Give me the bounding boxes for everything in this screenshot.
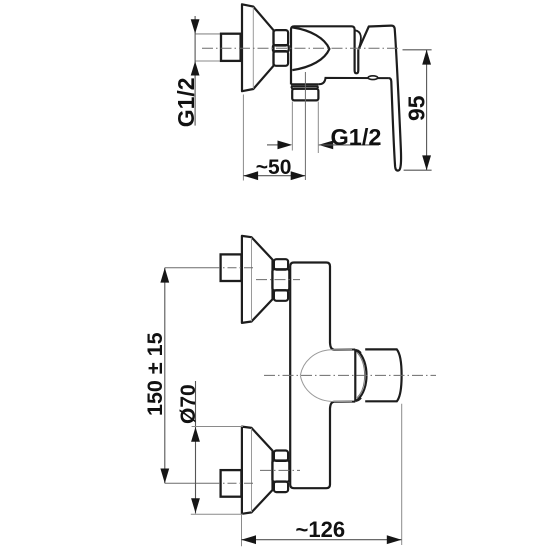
svg-text:G1/2: G1/2 <box>331 124 382 150</box>
centerline top pipe axis <box>165 267 211 269</box>
mixer body outline <box>291 26 358 84</box>
knob cylinder <box>365 349 401 401</box>
svg-text:150 ± 15: 150 ± 15 <box>143 332 167 416</box>
arrow ~50 left <box>243 171 258 180</box>
cartridge cone teardrop <box>292 27 329 70</box>
knob taper ring outer <box>358 350 367 399</box>
pipe nipple top <box>221 254 242 281</box>
body bottom step line <box>319 78 389 84</box>
dimension 150±15 line <box>164 268 166 484</box>
rosette bottom <box>242 427 273 514</box>
arrow 150 bottom <box>160 469 169 484</box>
arrow Ø70 top <box>191 427 200 442</box>
rosette top <box>242 236 273 323</box>
centerline main axis bottom view <box>264 374 436 376</box>
knob base plate edge <box>354 349 356 401</box>
extension ~126 left <box>241 515 243 547</box>
dimension Ø70 line <box>195 381 197 514</box>
screw cover oval <box>368 76 378 80</box>
extension ~126 right <box>401 404 403 545</box>
pipe nipple bottom <box>221 470 242 497</box>
centerline top nut axis <box>256 279 300 281</box>
arrow 95 bottom <box>422 155 431 170</box>
extension G1/2 outlet right <box>317 102 319 154</box>
arrow 95 top <box>422 50 431 65</box>
svg-text:~50: ~50 <box>256 156 292 179</box>
arrow Ø70 bottom <box>191 498 200 513</box>
arrow 150 top <box>160 268 169 283</box>
rosette front edge thin line <box>252 7 254 89</box>
arrow G1/2 left top <box>191 19 200 33</box>
rosette escutcheon (side view) <box>242 4 274 91</box>
lever handle <box>359 26 401 171</box>
handle neck arc <box>355 30 361 49</box>
svg-text:~126: ~126 <box>296 517 346 542</box>
centerline outlet axis <box>304 72 306 180</box>
hex nut top (front view) <box>272 259 289 301</box>
wire wall pipe thin lines <box>195 34 221 61</box>
extension 95 top <box>403 49 432 51</box>
hex nut bottom (front view) <box>272 451 289 493</box>
centerline horizontal top view <box>202 47 398 49</box>
dimension ~50 line <box>243 175 305 177</box>
svg-text:G1/2: G1/2 <box>173 77 199 127</box>
arrow G1/2 outlet left <box>278 141 293 150</box>
extension Ø70 bottom <box>191 513 243 515</box>
svg-text:95: 95 <box>403 95 429 121</box>
arrow ~126 right <box>387 535 402 544</box>
pipe nipple <box>221 34 241 61</box>
extension 95 bottom <box>404 169 432 171</box>
extension ~50 left <box>242 95 244 181</box>
knob taper ring inner <box>357 352 365 398</box>
extension Ø70 top <box>192 426 243 428</box>
arrow ~50 right <box>291 171 306 180</box>
arrow ~126 left <box>241 535 256 544</box>
dimension G1/2 outlet left segment <box>267 144 279 146</box>
rosette top front edge <box>251 238 253 322</box>
mixer body (bottom view) <box>290 263 334 489</box>
centerline bottom nut axis <box>260 469 300 471</box>
knob ring tips <box>356 350 361 400</box>
extension G1/2 outlet left <box>291 102 293 151</box>
body shoulder lines <box>334 350 355 402</box>
svg-text:Ø70: Ø70 <box>177 384 200 424</box>
arrow G1/2 left bottom <box>191 61 200 75</box>
rosette bottom front edge <box>251 428 253 512</box>
dimension ~126 line <box>241 539 401 541</box>
centerline bottom pipe axis <box>165 482 211 484</box>
arrow G1/2 outlet right <box>319 141 334 150</box>
outlet flange <box>291 84 319 89</box>
outlet thread G1/2 <box>292 89 318 101</box>
dimension G1/2 left line <box>194 16 196 126</box>
hex nut (side view) <box>273 30 289 66</box>
leader G1/2 outlet <box>319 144 380 146</box>
dome thin outline <box>300 350 352 402</box>
dimension 95 line <box>426 50 428 170</box>
